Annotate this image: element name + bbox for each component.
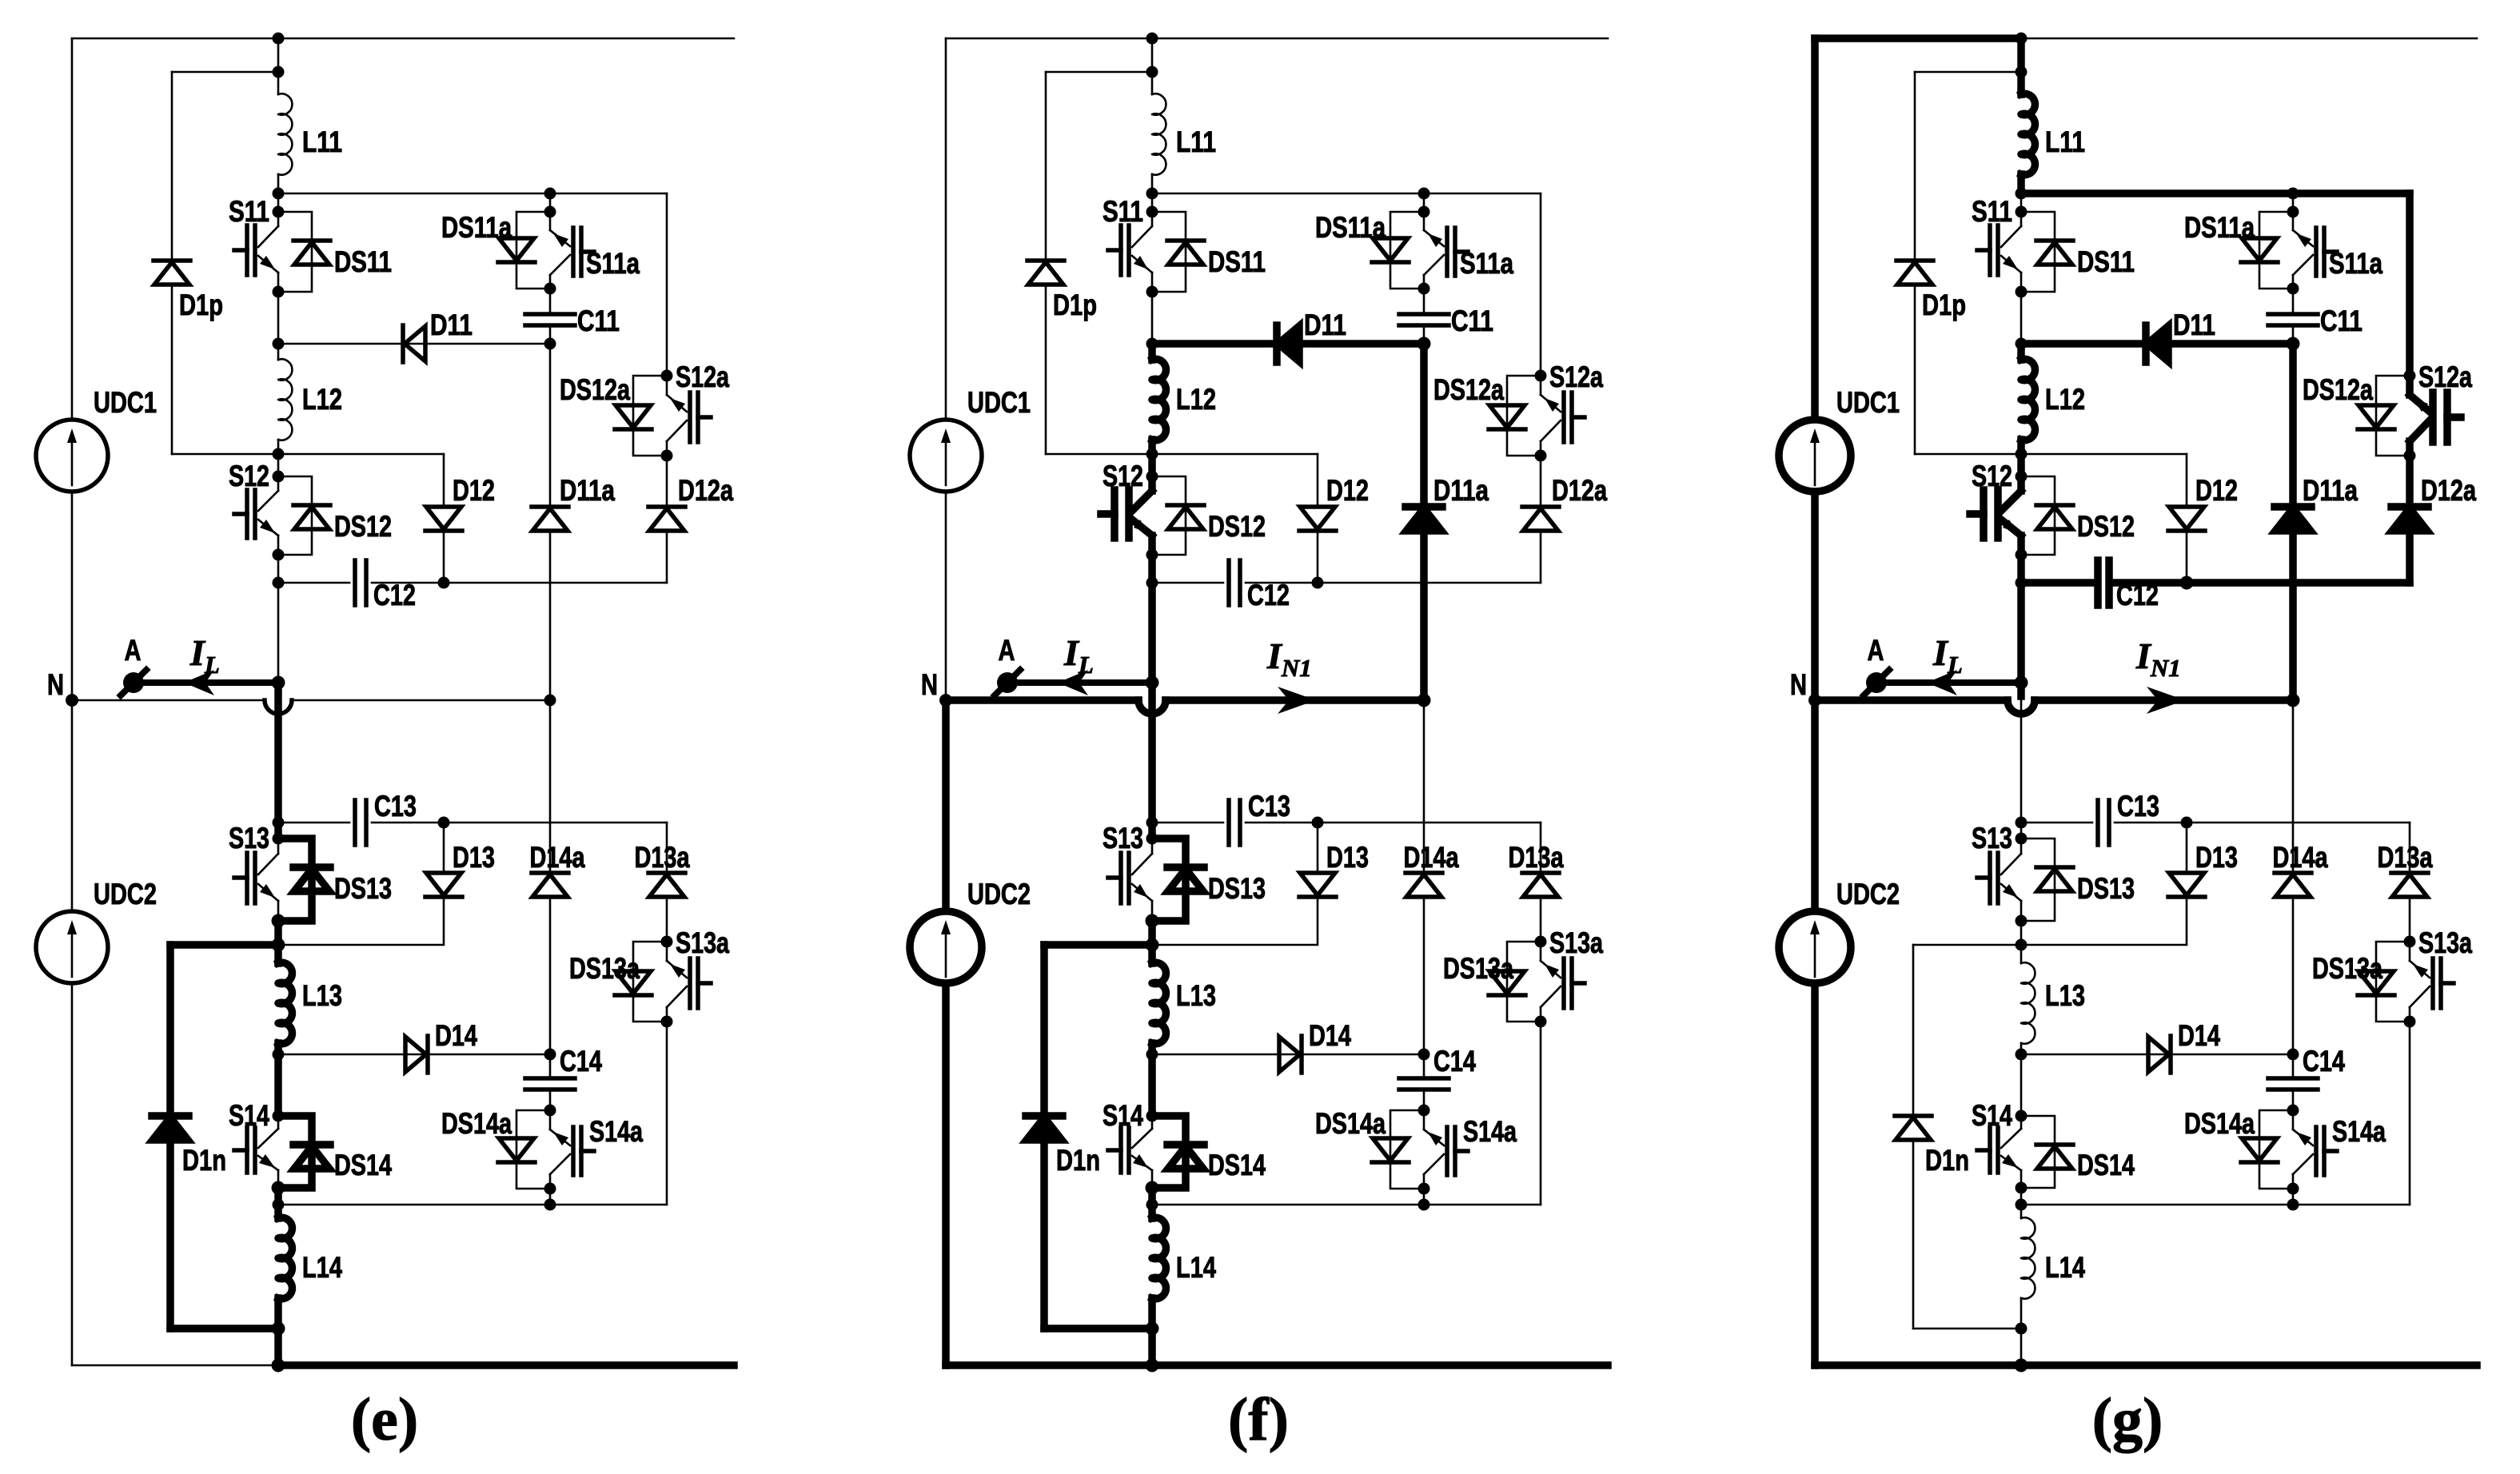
wire N (e) [72, 699, 265, 702]
inductor L12 (g) [2021, 359, 2035, 440]
node C13 left (f) [1146, 817, 1158, 829]
node S12a bottom (g) [2404, 450, 2416, 462]
wire C11 to D11 node (f) [1423, 325, 1425, 344]
wire D14 (f) [1152, 1054, 1424, 1056]
wire D13 bottom (f) [1152, 897, 1318, 945]
node S12 branch (g) [2016, 448, 2028, 460]
wire IL arrow (f) [1016, 679, 1152, 686]
diode D14a (e) [532, 874, 568, 897]
svg-text:DS12a: DS12a [2303, 373, 2373, 406]
svg-text:DS13: DS13 [2077, 872, 2135, 905]
wire D14a to C14 (e) [549, 897, 552, 1054]
source UDC1 (g) [1779, 420, 1851, 492]
svg-text:D12: D12 [1326, 474, 1369, 507]
node S13a top (f) [1535, 936, 1547, 948]
wire L12 to S12 (g) [2017, 440, 2025, 454]
diode D12 (g) [2169, 507, 2204, 529]
svg-text:S11a: S11a [1460, 247, 1513, 280]
svg-text:L13: L13 [1176, 979, 1216, 1012]
svg-text:S11: S11 [229, 195, 269, 228]
inductor L11 (g) [2021, 94, 2035, 174]
arrow IN1 (g) [2147, 687, 2185, 714]
svg-text:D13: D13 [1326, 841, 1369, 874]
node C12 right (g) [2180, 576, 2194, 590]
source UDC1 (f) [910, 420, 982, 492]
arrow IL (g) [1927, 670, 1957, 695]
wire D14 (e) [278, 1054, 550, 1056]
svg-text:D1n: D1n [1925, 1144, 1969, 1177]
wire N (g) [1815, 696, 2008, 704]
wire D1n bottom (f) [1040, 1140, 1048, 1329]
node bottom rail (e) [272, 1359, 285, 1372]
node C12 left (f) [1146, 577, 1158, 589]
svg-text:D14: D14 [435, 1019, 477, 1052]
diode DS11 (f) [1152, 212, 1186, 292]
diode DS11a (e) [516, 212, 550, 289]
svg-text:N: N [921, 668, 938, 701]
transistor S11 (e) [277, 212, 280, 226]
wire D1p top (e) [172, 71, 278, 74]
svg-text:S14: S14 [229, 1099, 269, 1132]
diode D13a (e) [649, 874, 684, 897]
wire left vertical lower (e) [71, 700, 74, 1365]
transistor S11 (f) [1151, 212, 1154, 226]
node branch a1 (f) [1418, 188, 1430, 200]
wire L13 to D14 node (g) [2020, 1043, 2023, 1054]
diode DS12 (e) [278, 476, 312, 555]
node S13a bottom (f) [1535, 1016, 1547, 1028]
inductor L14 (g) [2021, 1217, 2035, 1298]
capacitor C13 (g) [2095, 800, 2100, 845]
inductor L12 (e) [278, 359, 292, 440]
wire D1n bottom (e) [166, 1140, 174, 1329]
svg-text:S12: S12 [1972, 460, 2012, 492]
node A junction (g) [2015, 676, 2028, 690]
wire S11a to C11 (f) [1423, 289, 1425, 314]
diode D11a (f) [1406, 508, 1441, 531]
diode D12a (g) [2392, 508, 2427, 531]
transistor S14a (e) [549, 1174, 552, 1189]
node bottom rail (f) [1146, 1359, 1159, 1372]
wire IL to C13 (e) [274, 683, 282, 823]
wire C12 to IL (f) [1148, 583, 1156, 683]
node D14 left (e) [273, 1049, 285, 1061]
diode D12a (f) [1523, 508, 1558, 531]
diode DS14a (g) [2259, 1110, 2293, 1189]
wire S12 to C12 (e) [277, 555, 280, 583]
svg-text:S11: S11 [1972, 195, 2012, 228]
diode D1p (g) [1897, 262, 1932, 285]
svg-text:L11: L11 [1176, 125, 1216, 158]
arrow IL (f) [1058, 670, 1088, 695]
arrow IL (e) [184, 670, 214, 695]
svg-text:C14: C14 [560, 1045, 602, 1078]
node S14a top (g) [2287, 1105, 2299, 1117]
svg-text:IL: IL [1932, 632, 1963, 679]
svg-text:(e): (e) [351, 1386, 418, 1453]
wire C13 (e) [278, 822, 349, 824]
wire D11a to N (e) [549, 531, 552, 700]
diode D1p (f) [1028, 262, 1063, 285]
node S14 top (f) [1146, 1110, 1158, 1122]
wire S11 to D11 node (f) [1151, 292, 1154, 344]
wire L11 to S11 (g) [2017, 174, 2025, 193]
svg-text:DS12a: DS12a [1433, 373, 1504, 406]
capacitor C14 (g) [2292, 1054, 2295, 1079]
node C12 left (g) [2016, 577, 2028, 589]
wire S12 branch (f) [1046, 453, 1318, 456]
transistor S12 (f) [1148, 476, 1156, 491]
transistor S11 (g) [2020, 212, 2023, 226]
node S12 top (e) [273, 471, 285, 483]
node C13 right (g) [2181, 817, 2193, 829]
svg-text:S14a: S14a [589, 1115, 643, 1148]
wire D1p top (f) [1046, 71, 1152, 74]
node A junction (e) [272, 676, 285, 690]
node L11 top (f) [1146, 33, 1158, 45]
diode DS14a (e) [516, 1110, 550, 1189]
diode DS12a (e) [633, 376, 667, 456]
diode DS12 (g) [2021, 476, 2055, 555]
wire D11 node to L12 (f) [1148, 344, 1156, 360]
svg-text:DS13a: DS13a [1443, 952, 1513, 985]
wire D11 (f) [1152, 340, 1424, 348]
svg-text:D12: D12 [453, 474, 495, 507]
wire D1n top (e) [170, 941, 278, 949]
diode D14 (e) [405, 1037, 426, 1072]
node D1n return (g) [2016, 1323, 2028, 1335]
wire branch to S11a (g) [2292, 193, 2295, 212]
transistor S14 (e) [277, 1116, 280, 1129]
wire C13 to S13 (f) [1148, 823, 1156, 839]
transistor S14 (f) [1151, 1116, 1154, 1129]
node N (f) [939, 694, 952, 707]
node S12 bottom (g) [2016, 549, 2028, 561]
diode D13 (e) [426, 873, 461, 895]
wire S11 to D11 node (e) [277, 292, 280, 344]
node N (g) [1808, 694, 1821, 707]
node C12 left (e) [273, 577, 285, 589]
transistor S14a (f) [1423, 1174, 1425, 1189]
node branch S11a (g) [2016, 188, 2028, 200]
wire D12 top (f) [1317, 454, 1319, 508]
wire D1p bottom (e) [171, 285, 173, 454]
wire S12 to C12 (g) [2017, 555, 2025, 583]
wire D1p bottom (f) [1045, 285, 1047, 454]
svg-text:C11: C11 [2320, 305, 2362, 337]
wire D1n top (g) [1913, 944, 2021, 946]
node S14 top (e) [273, 1110, 285, 1122]
svg-text:C12: C12 [1247, 579, 1290, 612]
wire C12 to IL (g) [2017, 583, 2025, 683]
wire D14a column (f) [1423, 700, 1425, 873]
svg-text:S13: S13 [1972, 822, 2012, 855]
svg-text:DS14: DS14 [1208, 1149, 1266, 1181]
wire C12 (f) [1152, 582, 1223, 584]
capacitor C13 (f) [1226, 800, 1231, 845]
wire D12 bottom (g) [2186, 531, 2188, 583]
wire S12 branch (g) [1915, 453, 2187, 456]
capacitor C12 (g) [2094, 560, 2102, 605]
wire branch top (g) [2021, 189, 2293, 197]
wire join2 (e) [278, 1204, 550, 1206]
wire L14 to D1n return (g) [2020, 1298, 2023, 1329]
wire S12a to D12a (g) [2406, 456, 2414, 507]
node C13 right (e) [438, 817, 450, 829]
svg-text:N: N [1790, 668, 1807, 701]
svg-text:L14: L14 [302, 1251, 342, 1284]
transistor S11a (f) [1423, 275, 1425, 289]
wire S12a to D12a (f) [1540, 456, 1542, 507]
node N right (g) [2287, 694, 2300, 707]
svg-text:S13a: S13a [676, 926, 729, 959]
svg-text:S12a: S12a [1549, 361, 1603, 393]
wire hop (g) [2008, 700, 2035, 714]
svg-text:D14a: D14a [530, 841, 585, 874]
svg-text:UDC2: UDC2 [94, 878, 157, 910]
svg-text:S13a: S13a [1549, 926, 1603, 959]
wire center top (g) [2017, 38, 2025, 94]
svg-text:DS14: DS14 [334, 1149, 392, 1181]
diode D14a (g) [2275, 874, 2311, 897]
node D1n return (f) [1146, 1322, 1159, 1336]
svg-text:D11a: D11a [1433, 474, 1489, 507]
diode DS13 (g) [2021, 839, 2055, 921]
wire D12 top (e) [443, 454, 445, 508]
diode DS11a (f) [1390, 212, 1424, 289]
capacitor C12 (e) [353, 560, 357, 605]
node join2 right (g) [2287, 1199, 2299, 1211]
transistor S11a (g) [2292, 275, 2295, 289]
node branch a1 (g) [2287, 188, 2299, 200]
node A (e) [123, 672, 144, 693]
diode D11a (g) [2275, 508, 2311, 531]
svg-text:D11: D11 [1304, 309, 1346, 341]
wire L11 to S11 (f) [1151, 174, 1154, 193]
wire D1p top (g) [1915, 71, 2021, 74]
svg-text:S12a: S12a [2418, 361, 2472, 393]
node S11 bottom (g) [2016, 286, 2028, 298]
svg-text:DS11: DS11 [334, 245, 392, 278]
wire left vertical upper (g) [1811, 38, 1819, 700]
node join2 (g) [2016, 1199, 2028, 1211]
svg-text:S12: S12 [229, 460, 269, 492]
diode DS13a (g) [2376, 942, 2410, 1022]
node L11 top (g) [2016, 33, 2028, 45]
diode D1n (g) [1896, 1117, 1931, 1140]
node L11 top (e) [273, 33, 285, 45]
wire D1n top (f) [1044, 941, 1152, 949]
wire join2 to L14 (e) [274, 1205, 282, 1218]
diode D11 (g) [2147, 326, 2168, 361]
node S12a top (f) [1535, 370, 1547, 382]
diode DS14 (e) [278, 1116, 312, 1188]
svg-text:C13: C13 [2117, 790, 2159, 823]
node S11 top (f) [1146, 206, 1158, 218]
wire S12a to D12a (e) [666, 456, 668, 507]
wire L11 to S11 (e) [277, 174, 280, 193]
node D14 left (f) [1146, 1049, 1158, 1061]
diode D13 (g) [2169, 873, 2204, 895]
diode DS11 (e) [278, 212, 312, 292]
diode D12 (e) [426, 507, 461, 529]
wire S14a down (f) [1423, 1189, 1425, 1205]
svg-text:DS13: DS13 [334, 872, 392, 905]
wire D13 top (e) [443, 823, 445, 874]
node D11 left (f) [1146, 338, 1158, 350]
node S14a bottom (g) [2287, 1183, 2299, 1195]
svg-text:D12a: D12a [678, 474, 733, 507]
transistor S13 (g) [2020, 839, 2023, 854]
wire to bottom rail (f) [1148, 1329, 1156, 1365]
svg-text:S11a: S11a [586, 247, 640, 280]
diode DS11a (g) [2259, 212, 2293, 289]
transistor S12 (e) [277, 476, 280, 491]
svg-text:S13: S13 [1102, 822, 1143, 855]
wire D13a to S13a (f) [1540, 897, 1542, 942]
wire IL to C13 (f) [1148, 683, 1156, 823]
wire L13 to D14 node (e) [274, 1043, 282, 1054]
wire bottom rail (f) [946, 1361, 1608, 1369]
svg-text:D12a: D12a [1552, 474, 1607, 507]
wire L12 to S12 (f) [1148, 440, 1156, 454]
capacitor C11 (f) [1399, 312, 1449, 317]
wire C12 (g) [2021, 579, 2092, 587]
wire D13 bottom (g) [2021, 897, 2187, 945]
node D11 right (f) [1417, 337, 1431, 351]
wire D14a to C14 (g) [2292, 897, 2295, 1054]
wire bottom rail (g) [1815, 1361, 2477, 1369]
wire S13 to join (e) [274, 921, 282, 945]
wire S13a down (g) [2409, 1022, 2411, 1205]
node D14 left (g) [2016, 1049, 2028, 1061]
svg-text:DS14a: DS14a [2184, 1107, 2255, 1140]
wire D11a to N (g) [2289, 531, 2297, 700]
svg-text:L12: L12 [2045, 383, 2085, 416]
node S13a bottom (g) [2404, 1016, 2416, 1028]
node S14a top (f) [1418, 1105, 1430, 1117]
transistor S13a (f) [1540, 1007, 1542, 1022]
wire D14a to C14 (f) [1423, 897, 1425, 1054]
svg-text:L13: L13 [302, 979, 342, 1012]
inductor L14 (e) [278, 1217, 292, 1298]
node C14 top (g) [2287, 1049, 2299, 1061]
inductor L14 (f) [1152, 1217, 1166, 1298]
diode D11 (e) [405, 326, 425, 361]
node S13 top (e) [273, 833, 285, 845]
inductor L11 (f) [1152, 94, 1166, 174]
svg-text:A: A [1868, 634, 1884, 667]
node C12 right (f) [1312, 577, 1324, 589]
node N (e) [66, 694, 78, 707]
wire to bottom rail (e) [274, 1329, 282, 1365]
wire C12 (e) [278, 582, 349, 584]
source UDC2 (f) [910, 911, 982, 983]
svg-text:DS13a: DS13a [2312, 952, 2382, 985]
source UDC1 (e) [36, 420, 108, 492]
capacitor C11 (g) [2268, 312, 2318, 317]
arrow IN1 (f) [1278, 687, 1316, 714]
diode D1n (f) [1027, 1117, 1062, 1140]
node S13a top (g) [2404, 936, 2416, 948]
node S12a top (g) [2404, 370, 2416, 382]
wire S13a down (e) [666, 1022, 668, 1205]
capacitor C11 (e) [525, 312, 575, 317]
wire L13 to D14 node (f) [1148, 1043, 1156, 1054]
wire S14 to join2 (e) [274, 1188, 282, 1205]
wire join to L13 (f) [1148, 945, 1156, 963]
node S11 top (g) [2016, 206, 2028, 218]
capacitor C13 (e) [353, 800, 357, 845]
wire join to L13 (g) [2020, 945, 2023, 963]
node S13a top (e) [661, 936, 673, 948]
svg-text:N: N [47, 668, 64, 701]
svg-text:C13: C13 [1248, 790, 1290, 823]
wire D13a to S13a (g) [2409, 897, 2411, 942]
svg-text:D14: D14 [2178, 1019, 2220, 1052]
svg-text:D13a: D13a [635, 841, 690, 874]
transistor S13a (g) [2409, 1007, 2411, 1022]
svg-text:D1p: D1p [179, 289, 223, 321]
wire D11 node to D11a (e) [549, 344, 552, 507]
node S13 bottom (g) [2016, 915, 2028, 927]
svg-text:L12: L12 [302, 383, 342, 416]
wire S11a to C11 (g) [2292, 289, 2295, 314]
node S14 top (g) [2016, 1110, 2028, 1122]
node S14a bottom (e) [544, 1183, 556, 1195]
wire D12a to C12 corner (e) [666, 531, 668, 583]
svg-text:C13: C13 [374, 790, 417, 823]
node N right (e) [544, 695, 556, 707]
node D1n return (e) [272, 1322, 285, 1336]
wire N (f) [946, 696, 1138, 704]
node S12 top (g) [2016, 471, 2028, 483]
svg-text:D1n: D1n [1056, 1144, 1100, 1177]
node S11a top (e) [544, 206, 556, 218]
svg-text:DS11: DS11 [2077, 245, 2135, 278]
svg-text:S11a: S11a [2329, 247, 2382, 280]
svg-text:C11: C11 [577, 305, 620, 337]
svg-text:C12: C12 [2116, 579, 2159, 612]
node S11 bottom (e) [273, 286, 285, 298]
svg-text:(g): (g) [2092, 1386, 2163, 1453]
node S12 branch (f) [1146, 448, 1158, 460]
node D1n join (e) [272, 938, 285, 952]
svg-text:D14a: D14a [1404, 841, 1459, 874]
node join2 right (f) [1418, 1199, 1430, 1211]
wire L14 to D1n return (e) [274, 1298, 282, 1329]
wire join2 to L14 (g) [2020, 1205, 2023, 1218]
svg-text:(f): (f) [1228, 1386, 1289, 1453]
node S12 top (f) [1146, 471, 1158, 483]
wire C11 to D11 node (e) [549, 325, 552, 344]
svg-text:D11a: D11a [2303, 474, 2358, 507]
wire top rail (g) [1815, 34, 2021, 42]
wire hop (e) [265, 700, 292, 714]
diode DS14 (f) [1152, 1116, 1186, 1188]
diode D14 (g) [2148, 1037, 2169, 1072]
diode D13a (f) [1523, 874, 1558, 897]
node S12a bottom (e) [661, 450, 673, 462]
diode DS13 (e) [278, 839, 312, 921]
diode DS12 (f) [1152, 476, 1186, 555]
inductor L12 (f) [1152, 359, 1166, 440]
svg-text:IL: IL [1063, 632, 1094, 679]
svg-text:DS13a: DS13a [569, 952, 640, 985]
wire D11 node to L12 (g) [2017, 344, 2025, 360]
wire left vertical upper (e) [71, 38, 74, 700]
svg-text:C14: C14 [2303, 1045, 2345, 1078]
